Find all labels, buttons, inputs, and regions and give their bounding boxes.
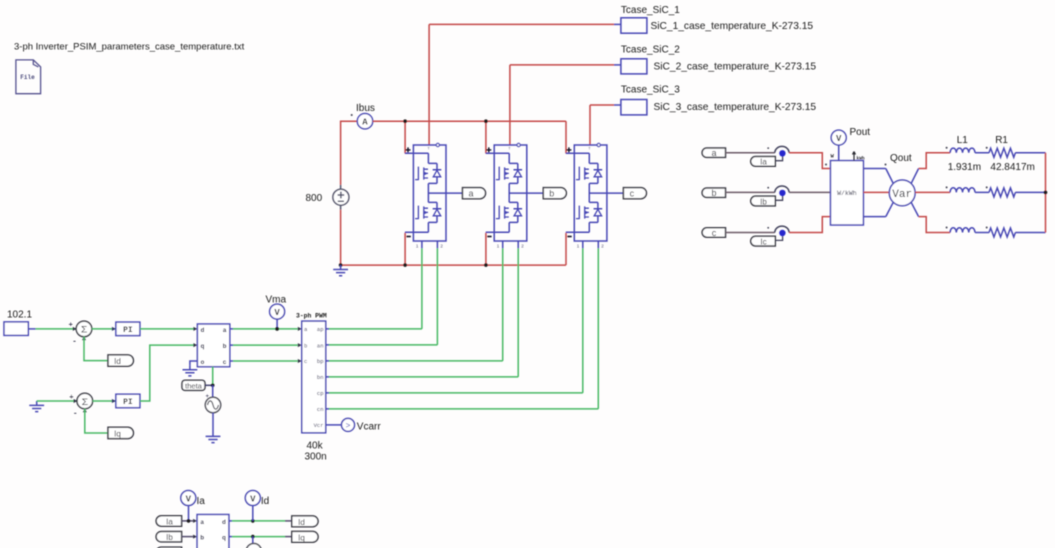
svg-text:40k: 40k bbox=[307, 441, 324, 452]
svg-text:Qout: Qout bbox=[890, 153, 912, 164]
summing junction 2 bbox=[69, 392, 92, 418]
svg-text:File: File bbox=[20, 74, 35, 81]
gate wire cn to leg3 pin2 bbox=[329, 248, 598, 409]
svg-text:theta: theta bbox=[185, 382, 203, 391]
branch a: inductor L1 + resistor R1 bbox=[946, 147, 1046, 158]
branch c: inductor + resistor bbox=[946, 227, 1046, 238]
sine source theta bbox=[205, 394, 220, 413]
svg-text:Iq: Iq bbox=[298, 533, 305, 542]
o input ground bbox=[190, 361, 198, 365]
svg-text:102.1: 102.1 bbox=[7, 310, 32, 321]
wire sensor Ib to meter input 2 bbox=[789, 191, 830, 193]
probe Vcarr bbox=[342, 418, 355, 431]
svg-text:Ibus: Ibus bbox=[356, 103, 375, 114]
svg-text:a: a bbox=[468, 189, 473, 199]
svg-text:a: a bbox=[200, 519, 204, 526]
svg-text:an: an bbox=[317, 342, 324, 349]
wire Var to branch a bbox=[919, 153, 951, 169]
leg3 - drop bbox=[565, 233, 567, 265]
svg-text:c: c bbox=[630, 189, 635, 199]
probe Vma bbox=[270, 304, 285, 319]
right neutral vertical wire bbox=[1045, 153, 1047, 233]
3-ph PWM block bbox=[296, 312, 327, 433]
svg-text:q: q bbox=[201, 343, 205, 350]
meter output wires to Var meter bbox=[863, 169, 885, 217]
junction bottom bus at source bbox=[339, 263, 343, 267]
node label c (load side) bbox=[702, 228, 725, 238]
Tcase_SiC_1 thermal block bbox=[621, 5, 813, 33]
half-bridge leg 3 (SiC_3) bbox=[566, 143, 624, 248]
svg-text:cp: cp bbox=[317, 390, 324, 397]
svg-text:W/kWh: W/kWh bbox=[837, 190, 857, 197]
leg1 + drop bbox=[404, 121, 406, 153]
label Ic input (partially visible) bbox=[156, 547, 182, 548]
svg-text:3-ph PWM: 3-ph PWM bbox=[296, 312, 327, 319]
svg-text:Vcarr: Vcarr bbox=[357, 421, 382, 432]
svg-text:800: 800 bbox=[306, 193, 323, 204]
node label a (load side) bbox=[702, 148, 725, 158]
svg-text:SiC_3_case_temperature_K-273.1: SiC_3_case_temperature_K-273.15 bbox=[654, 102, 817, 113]
half-bridge leg 2 (SiC_2) bbox=[486, 143, 544, 248]
wire source bottom to bottom bus bbox=[340, 210, 342, 265]
wire block d to label Id bbox=[229, 520, 232, 522]
svg-text:b: b bbox=[223, 343, 227, 350]
svg-text:c: c bbox=[223, 359, 227, 366]
svg-text:bn: bn bbox=[317, 374, 324, 381]
PI controller 1 bbox=[116, 322, 140, 336]
node label b (inverter output) bbox=[543, 188, 566, 199]
leg1 - drop bbox=[404, 233, 406, 265]
label Ic bbox=[751, 236, 776, 246]
svg-text:Ib: Ib bbox=[166, 533, 173, 542]
svg-text:a: a bbox=[223, 327, 227, 334]
ground below sine bbox=[206, 432, 221, 443]
wire Var to branch b bbox=[915, 191, 950, 193]
junction bottom bus at leg1 bbox=[403, 263, 407, 267]
svg-text:Ia: Ia bbox=[166, 517, 173, 526]
svg-text:b: b bbox=[711, 188, 716, 198]
DC source Vdc 800 bbox=[306, 185, 349, 210]
svg-text:Ic: Ic bbox=[760, 237, 766, 246]
gate wire ap to leg1 pin1 bbox=[329, 248, 422, 329]
svg-text:SiC_1_case_temperature_K-273.1: SiC_1_case_temperature_K-273.15 bbox=[651, 21, 814, 32]
Tcase_SiC_3 thermal block bbox=[621, 85, 816, 115]
node label c (inverter output) bbox=[623, 188, 646, 199]
svg-text:42.8417m: 42.8417m bbox=[990, 162, 1034, 173]
svg-text:Vcr: Vcr bbox=[314, 422, 324, 429]
wire summer1 to PI1 bbox=[92, 328, 116, 330]
wire summer1 feedback from Id bbox=[84, 337, 108, 361]
gate wire an to leg1 pin2 bbox=[329, 248, 437, 345]
ground at summer2 input bbox=[29, 401, 44, 412]
gate wire bn to leg2 pin2 bbox=[329, 248, 518, 377]
sine source (partially visible) bbox=[246, 544, 261, 548]
junction top bus at leg2 bbox=[484, 119, 488, 123]
wire summer2 feedback from Iq bbox=[85, 409, 108, 433]
svg-text:d: d bbox=[222, 519, 226, 526]
wire source top to bus bbox=[341, 121, 358, 185]
svg-text:Tcase_SiC_1: Tcase_SiC_1 bbox=[621, 5, 680, 16]
wire Var to branch c bbox=[919, 217, 951, 233]
file element icon bbox=[16, 60, 41, 94]
svg-text:Ia: Ia bbox=[197, 496, 206, 507]
wire b label to sensor Ib bbox=[726, 191, 775, 193]
top DC bus bbox=[373, 120, 566, 122]
Var meter Qout bbox=[885, 164, 919, 217]
current sensor Ia bbox=[767, 146, 789, 160]
meter probe stem bbox=[838, 145, 840, 160]
svg-text:1.931m: 1.931m bbox=[948, 162, 981, 173]
label Ia bbox=[751, 157, 776, 167]
svg-text:bp: bp bbox=[317, 358, 324, 365]
svg-text:d: d bbox=[201, 327, 205, 334]
wire Tcase_SiC_2 to leg2 top bbox=[614, 64, 621, 66]
svg-text:Tcase_SiC_2: Tcase_SiC_2 bbox=[621, 45, 680, 56]
svg-text:c: c bbox=[304, 358, 307, 365]
svg-text:+: + bbox=[206, 394, 210, 400]
junction Id probe bbox=[251, 519, 255, 523]
wire theta to sine node bbox=[205, 384, 213, 386]
summing junction 1 bbox=[69, 320, 92, 346]
wire junction to sine source bbox=[212, 385, 214, 397]
leg3 + drop bbox=[565, 121, 567, 153]
svg-text:Id: Id bbox=[261, 496, 269, 507]
leg2 + drop bbox=[485, 121, 487, 153]
wire PI1 to dq block d input bbox=[140, 328, 194, 330]
W/kWh meter bbox=[825, 152, 865, 226]
label Ib bbox=[751, 196, 776, 206]
probe Ia stem bbox=[188, 505, 190, 521]
node label b (load side) bbox=[702, 188, 725, 198]
theta label bbox=[182, 380, 205, 390]
svg-text:b: b bbox=[549, 189, 554, 199]
label Iq output bbox=[292, 531, 318, 542]
svg-text:cn: cn bbox=[317, 406, 324, 413]
current sensor Ib bbox=[767, 186, 789, 200]
svg-text:c: c bbox=[712, 228, 717, 238]
half-bridge leg 1 (SiC_1) bbox=[405, 143, 463, 248]
svg-text:A: A bbox=[362, 118, 368, 128]
gate wire bp to leg2 pin1 bbox=[329, 248, 503, 361]
svg-text:b: b bbox=[304, 342, 307, 349]
svg-text:>: > bbox=[346, 422, 351, 431]
svg-text:3-ph Inverter_PSIM_parameters_: 3-ph Inverter_PSIM_parameters_case_tempe… bbox=[14, 42, 245, 53]
wire a label to sensor Ia bbox=[726, 152, 775, 154]
wire step to summer1 bbox=[28, 328, 35, 330]
leg2 - drop bbox=[485, 233, 487, 265]
label Id bbox=[108, 355, 133, 366]
wire c label to sensor Ic bbox=[726, 232, 775, 234]
wire summer2 to PI2 bbox=[92, 400, 116, 402]
probe Id (display) bbox=[245, 491, 260, 506]
svg-text:R1: R1 bbox=[995, 135, 1008, 146]
wire dq block theta input bbox=[212, 367, 214, 386]
svg-text:Ib: Ib bbox=[760, 197, 767, 206]
junction Ia bbox=[187, 519, 191, 523]
wire block q to label Iq bbox=[229, 536, 232, 538]
wire sensor Ic to meter input 3 bbox=[789, 217, 830, 233]
dq to abc transform block bbox=[197, 324, 229, 367]
junction neutral bbox=[1044, 191, 1048, 195]
svg-text:Iq: Iq bbox=[114, 430, 121, 439]
svg-text:Pout: Pout bbox=[850, 127, 871, 138]
svg-text:Tcase_SiC_3: Tcase_SiC_3 bbox=[621, 85, 680, 96]
probe Pout bbox=[831, 130, 846, 145]
dq block outputs to PWM inputs bbox=[230, 329, 233, 361]
label Ib input bbox=[156, 532, 182, 543]
wire sine to ground bbox=[212, 413, 214, 432]
junction top bus at leg1 bbox=[403, 119, 407, 123]
gate wire cp to leg3 pin1 bbox=[329, 248, 583, 393]
ammeter Ibus bbox=[351, 103, 375, 129]
svg-text:300n: 300n bbox=[305, 452, 327, 463]
junction q sine bbox=[251, 535, 255, 539]
svg-text:SiC_2_case_temperature_K-273.1: SiC_2_case_temperature_K-273.15 bbox=[654, 62, 817, 73]
step reference 102.1 bbox=[4, 310, 32, 336]
PI controller 2 bbox=[116, 394, 140, 408]
bottom DC bus bbox=[341, 264, 566, 266]
svg-text:b: b bbox=[200, 535, 204, 542]
wire Tcase_SiC_3 to leg3 top bbox=[614, 104, 621, 106]
wire PI2 to dq block q input bbox=[140, 345, 194, 401]
probe Ia (current display) bbox=[181, 491, 196, 506]
Tcase_SiC_2 thermal block bbox=[621, 45, 816, 74]
svg-text:q: q bbox=[222, 535, 226, 542]
svg-text:o: o bbox=[201, 359, 205, 366]
wire Ib label to block b bbox=[182, 536, 194, 538]
abc to dq block (bottom) bbox=[197, 515, 229, 548]
svg-text:Var: Var bbox=[892, 189, 912, 201]
svg-text:Vma: Vma bbox=[266, 294, 287, 305]
branch b: inductor + resistor bbox=[946, 186, 1046, 197]
wire Ia label to block a bbox=[182, 520, 194, 522]
PWM output stubs bbox=[326, 329, 329, 409]
Vcr carrier output wire bbox=[326, 424, 342, 426]
svg-text:PI: PI bbox=[123, 326, 133, 335]
wire Tcase_SiC_1 to leg1 top bbox=[614, 23, 621, 25]
svg-text:L1: L1 bbox=[957, 135, 969, 146]
current sensor Ic bbox=[767, 226, 789, 240]
svg-text:Id: Id bbox=[114, 357, 121, 366]
label Iq bbox=[108, 427, 133, 438]
svg-text:a: a bbox=[711, 148, 716, 158]
node label a (inverter output) bbox=[463, 188, 486, 199]
junction theta bbox=[211, 384, 215, 388]
svg-text:ap: ap bbox=[317, 326, 324, 333]
svg-text:Ia: Ia bbox=[760, 158, 767, 167]
svg-text:PI: PI bbox=[123, 398, 133, 407]
junction bottom bus at leg2 bbox=[484, 263, 488, 267]
wire sensor Ia to meter input 1 bbox=[789, 153, 830, 169]
label Id output bbox=[292, 516, 318, 527]
label Ia input bbox=[156, 516, 182, 527]
ground main bus bbox=[333, 265, 348, 276]
junction Vma on wire a bbox=[275, 327, 279, 331]
svg-text:Id: Id bbox=[298, 518, 305, 527]
svg-text:kWh: kWh bbox=[857, 156, 865, 162]
